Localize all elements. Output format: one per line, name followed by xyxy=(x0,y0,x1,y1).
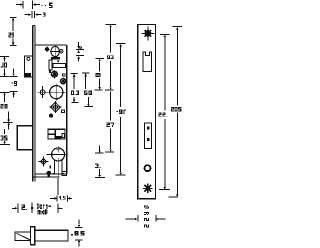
dim 2 (mid top) xyxy=(76,42,84,62)
label 3. xyxy=(95,163,100,168)
top fixing screw (front view) xyxy=(141,27,154,41)
small rect right of S4 xyxy=(62,110,65,113)
dim 92 column (x~120.7) xyxy=(115,44,125,175)
small open rect bottom right of case xyxy=(62,172,66,176)
DIMENSIONS xyxy=(0,1,182,247)
faceplate front view (right view) xyxy=(138,25,156,199)
label 5 xyxy=(49,3,52,9)
cylinder round hole (front view) xyxy=(145,165,151,171)
dim 20 (left col A, latch height) xyxy=(0,57,9,77)
dim 5 (latch protrusion, top) xyxy=(16,1,46,9)
screw S4 below follower xyxy=(49,101,61,113)
dim 19 (left col B2) xyxy=(10,68,18,97)
small screw S3 xyxy=(60,78,67,85)
dim 3 (faceplate thickness) xyxy=(25,11,42,18)
dim 0.3 (mid pair left) xyxy=(71,74,79,103)
lock case outline (left view) xyxy=(33,45,67,177)
euro cylinder hole (left view) xyxy=(47,146,67,177)
gear box window (front view) xyxy=(144,123,151,149)
dark stop blob xyxy=(49,113,53,117)
label 8.5 bolt xyxy=(71,231,84,236)
label 0.3 xyxy=(71,90,79,95)
dim PR22 (faceplate width, bottom) xyxy=(125,215,165,222)
cylinder axis extension xyxy=(57,178,59,195)
label 205 xyxy=(171,107,181,111)
dim 50 (mid pair right) xyxy=(82,73,93,107)
latch window (front view) xyxy=(143,52,151,72)
label mass xyxy=(37,209,47,214)
label 50 xyxy=(84,90,92,95)
deadbolt protruding (left view) xyxy=(17,126,33,150)
label 93 xyxy=(107,55,114,59)
spring club blob xyxy=(47,171,52,177)
small circle right of latch guide xyxy=(59,49,63,53)
label 2 backset xyxy=(21,204,27,210)
label 2 mid xyxy=(80,47,82,50)
screw S1 top of case xyxy=(44,46,50,52)
label 9 dot xyxy=(12,81,18,86)
latch bolt protruding (left view) xyxy=(25,56,33,77)
dim 8 rotated column (x~99.6) xyxy=(94,59,113,178)
dim 15 (left col A3) xyxy=(0,129,10,144)
small crossed circle left of follower xyxy=(38,86,48,98)
label 92 xyxy=(117,110,127,114)
latch guide ellipse xyxy=(50,45,61,60)
label PR22 rotated xyxy=(144,206,149,228)
faceplate side view (edge-on, left view) xyxy=(33,25,35,181)
crosshatched screw S2 xyxy=(50,70,58,79)
label 3 xyxy=(43,12,46,16)
label 27 xyxy=(107,122,114,127)
label Dorn- xyxy=(37,204,51,209)
lever bracket xyxy=(49,60,66,76)
label 35 xyxy=(0,136,7,141)
label 8 rotated xyxy=(96,73,101,77)
latch spring dark bar xyxy=(51,57,60,60)
dim 9.3 / 27 column (x~110.6) xyxy=(105,24,116,152)
dim 220 column (far right A) xyxy=(159,35,170,190)
label 28 xyxy=(0,104,7,109)
crossed diamond screw left of cylinder xyxy=(38,156,48,166)
label 10 xyxy=(0,62,7,67)
dim 18.5 (bolt height, bottom) xyxy=(75,220,83,247)
label 1.5 xyxy=(59,196,65,200)
slider block xyxy=(48,129,65,139)
dim Dornmass (backset) xyxy=(12,202,62,213)
bolt side view (bottom) xyxy=(15,227,68,245)
dim 29 (left col B) xyxy=(10,18,17,46)
label 220 xyxy=(158,113,167,117)
label 29 xyxy=(8,33,14,38)
dim 205 column (far right B) xyxy=(169,27,183,197)
bottom fixing screw (front view) xyxy=(143,184,152,193)
dim 28 (left col A2) xyxy=(0,92,13,129)
small dark rect in case bottom xyxy=(50,166,52,169)
follower nut (handle hub) xyxy=(45,84,66,101)
dim 11.5 (axis to case back) xyxy=(50,195,72,201)
